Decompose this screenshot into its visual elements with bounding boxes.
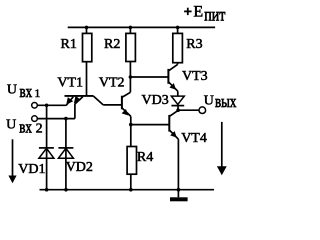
node R3-rail junction [176, 26, 180, 30]
input terminal Uvh1 [32, 103, 38, 109]
svg-text:R3: R3 [186, 37, 202, 52]
svg-text:вх: вх [19, 119, 32, 137]
transistor VT1 multi-emitter [65, 96, 104, 119]
node VD1-ground [45, 188, 49, 192]
wire VT2 collector to VT3 base [130, 76, 168, 78]
transistor VT2 [122, 92, 131, 124]
svg-text:VT1: VT1 [57, 75, 83, 90]
svg-text:VD1: VD1 [18, 162, 45, 177]
svg-text:вых: вых [215, 94, 237, 112]
node VT3 base junction [129, 75, 133, 79]
node R1-rail junction [85, 26, 89, 30]
output terminal Uvyh [199, 107, 206, 114]
svg-text:R2: R2 [104, 37, 120, 52]
wire input1 [38, 104, 67, 106]
svg-text:VD2: VD2 [66, 160, 93, 175]
wire output [178, 109, 199, 111]
svg-text:VT2: VT2 [99, 75, 125, 90]
arrow Uvyh direction [217, 122, 227, 175]
transistor VT4 [169, 110, 178, 189]
svg-text:1: 1 [34, 86, 40, 100]
power rail +Epit [68, 26, 215, 28]
resistor R2 [126, 27, 135, 92]
node VD1-input1 junction [45, 104, 49, 108]
transistor VT3 [168, 64, 177, 96]
node VD2-ground [64, 188, 68, 192]
svg-text:U: U [6, 117, 16, 132]
arrow Uvh2 direction [8, 139, 16, 183]
svg-text:2: 2 [36, 121, 43, 136]
svg-text:U: U [204, 93, 214, 108]
svg-text:R4: R4 [137, 150, 153, 165]
node R2-rail junction [129, 26, 133, 30]
wire input2 [38, 118, 75, 120]
node VT4-ground [177, 188, 181, 192]
node R4-ground [129, 188, 133, 192]
svg-text:вх: вх [20, 84, 33, 102]
resistor R1 [83, 27, 92, 96]
svg-text:VD3: VD3 [142, 93, 169, 108]
svg-text:R1: R1 [61, 37, 77, 52]
diode VD3 [171, 96, 184, 110]
node VT2 emitter junction [129, 123, 133, 127]
svg-text:U: U [7, 83, 17, 98]
wire VT2 emitter to VT4 base [131, 124, 170, 126]
ground symbol [170, 190, 188, 202]
input terminal Uvh2 [32, 116, 38, 122]
label +Epit [184, 8, 192, 15]
diode VD2 [58, 119, 73, 190]
resistor R4 [127, 125, 136, 190]
node VD2-input2 junction [64, 117, 68, 121]
node output junction [176, 108, 180, 112]
svg-text:VT3: VT3 [182, 69, 208, 84]
svg-text:пит: пит [204, 6, 225, 25]
diode VD1 [39, 105, 54, 190]
ground rail [40, 189, 215, 191]
svg-text:VT4: VT4 [181, 131, 207, 146]
wire VT1 collector to VT2 base [103, 104, 122, 106]
resistor R3 [173, 27, 183, 64]
svg-text:E: E [193, 3, 203, 20]
